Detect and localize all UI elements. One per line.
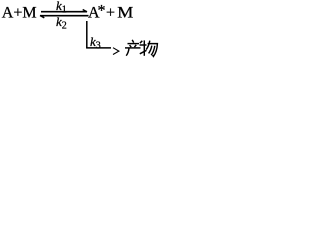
svg-text:+: + [106, 4, 115, 21]
svg-text:A+M: A+M [2, 4, 37, 21]
hanzi 产 (product char 1) [125, 40, 141, 56]
reverse arrow (bottom harpoon, left) [40, 15, 89, 17]
svg-text:k1: k1 [56, 0, 67, 15]
wire horizontal to product [86, 47, 111, 49]
hanzi 物 (product char 2) [140, 40, 158, 56]
wire vertical from A* [86, 21, 88, 48]
svg-text:k3: k3 [90, 34, 101, 51]
arrowhead > [113, 48, 119, 55]
forward arrow (top harpoon, right) [41, 11, 87, 13]
svg-text:*: * [98, 2, 106, 19]
svg-text:k2: k2 [56, 14, 67, 31]
svg-text:M: M [117, 3, 133, 21]
